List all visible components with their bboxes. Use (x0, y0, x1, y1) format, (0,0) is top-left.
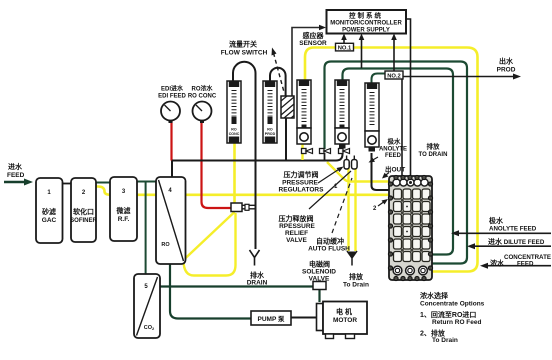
controller box (327, 10, 407, 34)
svg-text:极水: 极水 (489, 216, 504, 225)
wire black pump to motor shaft (291, 317, 317, 319)
tank 2 SOFTENER (70, 178, 97, 242)
svg-text:电磁阀: 电磁阀 (309, 260, 330, 269)
svg-text:MONITOR/CONTROLLER: MONITOR/CONTROLLER (330, 21, 402, 27)
pointer to regulators with label 1 (318, 169, 340, 184)
svg-text:1、回流至RO进口: 1、回流至RO进口 (420, 310, 476, 319)
tag NO.1 (336, 43, 354, 51)
wire black rotameter R5 to stack top left port (372, 153, 391, 190)
svg-text:自动缓冲: 自动缓冲 (316, 237, 344, 246)
svg-text:MOTOR: MOTOR (333, 317, 357, 324)
svg-text:RELIEF: RELIEF (285, 230, 308, 237)
wire red gauge EDI FEED drop (170, 120, 172, 161)
svg-text:NO.1: NO.1 (338, 45, 352, 51)
svg-text:DRAIN: DRAIN (247, 280, 268, 287)
pressure regulator pill 1 (344, 160, 349, 170)
feed inlet arrow (4, 181, 26, 183)
svg-text:To Drain: To Drain (343, 282, 369, 289)
svg-text:POWER SUPPLY: POWER SUPPLY (342, 28, 390, 34)
wire dark green C: rotameter R5 top to NO.2 line (372, 74, 387, 84)
svg-text:砂滤: 砂滤 (42, 207, 56, 216)
sensor wire from flow switch to controller (292, 28, 320, 97)
svg-text:VALVE: VALVE (286, 237, 307, 244)
svg-text:FEED: FEED (517, 261, 534, 268)
wire yellow RO concentrate drop from rotameter R1 (233, 143, 236, 212)
svg-text:NO.2: NO.2 (387, 73, 401, 79)
wire controller to NO.2 tag (393, 36, 395, 71)
svg-text:TO DRAIN: TO DRAIN (419, 152, 448, 158)
stack top ports (393, 179, 400, 186)
arrow concentrate feed (right side) (485, 265, 551, 267)
svg-text:REGULATORS: REGULATORS (279, 187, 325, 194)
svg-text:R.F.: R.F. (118, 216, 130, 223)
svg-text:PROD: PROD (497, 67, 516, 74)
svg-text:浓水: 浓水 (490, 259, 505, 268)
svg-text:SOFINER: SOFINER (70, 218, 97, 224)
rotameter R5 with bulb (365, 83, 379, 152)
rotameter R3 with bulb (297, 80, 311, 144)
svg-text:RO浓水: RO浓水 (191, 85, 213, 93)
svg-text:Concentrate Options: Concentrate Options (420, 301, 485, 308)
wire dark green A: rotameter R4 line to stack anolyte port (343, 69, 454, 255)
arrow anolyte feed (right side) (456, 232, 551, 234)
wire controller to NO.1 tag (343, 36, 345, 43)
svg-text:SOLENOID: SOLENOID (302, 269, 336, 276)
drain Y symbol (RO conc drain) (250, 250, 260, 266)
wire black tank1 to tank2 connector (63, 183, 72, 185)
svg-text:流量开关: 流量开关 (229, 40, 257, 49)
svg-text:浓水选择: 浓水选择 (420, 291, 449, 300)
wire black hoop rotameter R2 to flow switch (270, 68, 286, 96)
solenoid valve body (313, 282, 326, 290)
svg-text:FEED: FEED (385, 153, 402, 159)
rotameter R2 RO PROD (263, 81, 277, 143)
pressure regulator pill stems (347, 156, 355, 160)
relief valve fitting on drain pipe (231, 203, 255, 212)
tag NO.2 (385, 71, 403, 79)
stack grid cells (394, 189, 431, 262)
tank 4 RO module (156, 177, 186, 264)
svg-text:GAC: GAC (42, 217, 57, 224)
wire black flow switch to main line (285, 118, 287, 161)
svg-text:出水: 出水 (499, 57, 514, 66)
dashed pointer from auto flush to drain line (332, 178, 352, 233)
stack bottom ports (393, 266, 402, 275)
svg-text:To Drain: To Drain (432, 337, 458, 344)
arrow dilute feed (right side) (472, 245, 551, 247)
svg-text:压力释放阀: 压力释放阀 (279, 214, 314, 223)
pressure gauge RO CONC (193, 102, 212, 124)
wire yellow auto-flush drains from pressure regulators (347, 168, 349, 251)
wire green tank3 to tank4 connector with tee to tank5 (137, 181, 156, 183)
wire yellow loop under tank4 (184, 213, 236, 276)
tank 5 CO2 tower (134, 274, 160, 338)
wire NO.2 tag to stack top (401, 79, 403, 176)
drain Y symbol (auto flush drain) (347, 251, 357, 266)
svg-text:软化口: 软化口 (73, 207, 94, 216)
svg-text:ANOLYTE FEED: ANOLYTE FEED (489, 226, 537, 233)
svg-text:排水: 排水 (250, 271, 265, 280)
pressure regulator pill 2 (352, 160, 358, 170)
svg-text:EDI进水: EDI进水 (161, 85, 184, 93)
svg-text:PROD: PROD (265, 132, 276, 136)
svg-text:Return RO Feed: Return RO Feed (432, 319, 482, 326)
svg-text:RO CONC: RO CONC (188, 94, 217, 100)
wire black main feed line tank4 top to rotameter R4 (172, 148, 343, 161)
wire green tank5 to solenoid valve and motor (160, 287, 320, 303)
svg-text:RPESSURE: RPESSURE (279, 223, 315, 230)
svg-text:PRESSURE: PRESSURE (282, 180, 318, 187)
svg-text:感应器: 感应器 (303, 31, 325, 40)
svg-text:ANOLYTE: ANOLYTE (379, 147, 407, 153)
wire controller right stub down to stack center port (406, 19, 411, 176)
stack edge bolts (388, 175, 432, 280)
svg-text:SENSOR: SENSOR (299, 40, 327, 47)
motor (317, 302, 368, 339)
flow switch body (281, 96, 294, 118)
tank 1 GAC (36, 178, 63, 243)
valve A on R3 drop (302, 149, 313, 154)
solid pointer from relief text to pills (309, 171, 351, 209)
tank 3 R.F. (110, 177, 137, 241)
svg-text:进水: 进水 (8, 162, 23, 171)
wire black yellow drop of rotameter R3 to valve A (301, 144, 303, 160)
wire black product out to PROD arrow (403, 76, 516, 78)
wire black hoop over rotameter R1 down to drain with relief valve (233, 62, 256, 249)
svg-text:排放: 排放 (427, 142, 441, 151)
EDI stack (388, 175, 432, 280)
rotameter R4 with bulb (335, 80, 349, 149)
svg-text:进水 DILUTE FEED: 进水 DILUTE FEED (488, 237, 545, 246)
svg-text:CONC: CONC (229, 132, 240, 136)
valve B on green line (320, 149, 331, 154)
svg-text:EDI FEED: EDI FEED (158, 94, 186, 100)
svg-text:微滤: 微滤 (116, 206, 131, 215)
pump box (251, 311, 291, 325)
pressure gauge EDI FEED (161, 102, 180, 124)
stack inner junction bolts (401, 199, 423, 252)
rotameter R1 RO CONC (227, 81, 241, 143)
wire yellow sensor line NO.1 from rotameter R3 to EDI stack concentrate port (305, 48, 478, 272)
valve C on main feed to R4 (339, 149, 350, 154)
svg-text:压力调节阀: 压力调节阀 (284, 170, 319, 179)
svg-text:FEED: FEED (7, 172, 25, 179)
wire red gauge RO CONC drop to relief valve (202, 120, 232, 208)
svg-text:极水: 极水 (388, 137, 402, 146)
svg-text:RO: RO (161, 242, 170, 248)
svg-text:AUTO FLUSH: AUTO FLUSH (308, 246, 350, 253)
wire green tank4 bottom to pump suction (170, 263, 251, 319)
svg-text:电机: 电机 (336, 307, 354, 316)
wire controller stub to green line (361, 36, 363, 68)
svg-text:排放: 排放 (349, 272, 364, 281)
svg-text:控制系统: 控制系统 (349, 11, 383, 20)
wire yellow long feed line from softener T2 to stack dilute port (96, 187, 390, 195)
svg-text:PUMP 泵: PUMP 泵 (258, 314, 285, 323)
svg-text:FLOW SWITCH: FLOW SWITCH (221, 50, 268, 57)
wire yellow diagonal to tank4 corner (184, 212, 235, 260)
svg-text:CO2: CO2 (144, 325, 155, 331)
svg-text:出OUT: 出OUT (385, 165, 405, 174)
wire black valve B drop to main line (324, 153, 326, 161)
wire dark green B: valve line to stack outer port (325, 62, 468, 264)
wire green tank2 to tank3 connector (96, 182, 110, 184)
wire yellow diagonal into stack upper port (327, 162, 390, 182)
dashed pointer to flow switch (274, 53, 285, 92)
